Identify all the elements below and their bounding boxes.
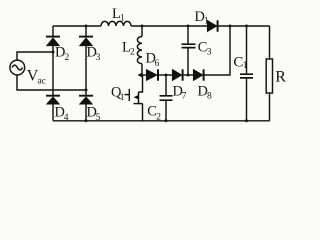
diode D6 bbox=[146, 69, 157, 80]
svg-text:3: 3 bbox=[207, 48, 212, 58]
junction node at D3 leg top rail bbox=[85, 25, 88, 28]
svg-text:1: 1 bbox=[120, 93, 125, 103]
source Vac sine bbox=[12, 65, 23, 70]
capacitor C3 bottom lead bbox=[187, 48, 189, 75]
wire top rail left (bridge top to L1) bbox=[53, 25, 101, 27]
svg-text:6: 6 bbox=[155, 59, 160, 69]
wire D8 cathode return to top rail bbox=[205, 26, 231, 75]
junction node at C1 bottom bbox=[245, 119, 248, 122]
wire Vac top lead bbox=[17, 52, 53, 60]
wire top rail right (L1 to R corner) bbox=[131, 25, 270, 27]
junction node at D8 return bbox=[229, 25, 232, 28]
junction node at Vac bottom / D5 leg bbox=[85, 89, 88, 92]
capacitor C3 plates bbox=[182, 44, 196, 47]
capacitor C2 bottom lead bbox=[165, 101, 167, 121]
wire L2 top lead bbox=[141, 26, 143, 37]
svg-text:4: 4 bbox=[64, 113, 69, 123]
transistor Q1 channel bar bbox=[138, 92, 140, 104]
svg-text:1: 1 bbox=[204, 17, 209, 27]
wire R top lead bbox=[269, 26, 271, 59]
wire Q1 drain bbox=[139, 75, 143, 92]
junction node at C2 bottom bbox=[165, 119, 168, 122]
diode D7 bbox=[172, 69, 182, 80]
resistor R body bbox=[266, 59, 272, 93]
diode D3 bbox=[79, 36, 93, 38]
diode D4 bbox=[46, 95, 60, 97]
junction node at D5 leg bottom rail bbox=[85, 119, 88, 122]
diode D5 bbox=[79, 95, 93, 97]
wire left bridge column bbox=[52, 26, 54, 121]
junction node at C2 top bbox=[165, 74, 168, 77]
capacitor C1 plates bbox=[240, 74, 253, 78]
svg-text:ac: ac bbox=[38, 77, 46, 87]
svg-text:2: 2 bbox=[156, 112, 161, 122]
svg-text:3: 3 bbox=[96, 53, 101, 63]
junction node at L2 branch bbox=[141, 25, 144, 28]
wire right bridge column bbox=[85, 26, 87, 121]
transistor Q1 gate bar bbox=[128, 89, 130, 101]
svg-text:1: 1 bbox=[120, 14, 125, 24]
wire D7 cathode to C3 node bbox=[183, 74, 194, 76]
diode D1 bbox=[207, 20, 217, 31]
wire L2 bottom lead to node bbox=[141, 64, 143, 75]
capacitor C1 bottom lead bbox=[246, 79, 248, 121]
transistor Q1 source line bbox=[134, 103, 143, 105]
svg-text:R: R bbox=[275, 68, 286, 85]
transistor Q1 body arrow line bbox=[136, 96, 139, 98]
wire Q1 gate lead bbox=[125, 94, 130, 96]
transistor Q1 body arrowhead bbox=[134, 95, 139, 100]
svg-text:7: 7 bbox=[182, 91, 187, 101]
capacitor C2 plates bbox=[160, 96, 173, 100]
arrow at L2/Q1 node bbox=[138, 73, 143, 78]
wire node to D6 anode bbox=[141, 74, 147, 76]
junction node at C3 bottom bbox=[187, 74, 190, 77]
diode D2 bbox=[46, 36, 60, 38]
wire Vac bottom lead bbox=[17, 75, 86, 90]
capacitor C1 top lead bbox=[246, 26, 248, 73]
junction node at C3 top bbox=[187, 25, 190, 28]
svg-text:2: 2 bbox=[65, 53, 70, 63]
svg-text:1: 1 bbox=[243, 61, 248, 71]
capacitor C3 top lead bbox=[187, 26, 189, 43]
svg-text:5: 5 bbox=[96, 113, 101, 123]
junction node at Vac top / D2 leg bbox=[52, 51, 55, 54]
svg-text:8: 8 bbox=[207, 92, 212, 102]
wire bottom rail bbox=[53, 120, 270, 122]
wire R bottom lead bbox=[269, 93, 271, 121]
junction node at C1 top bbox=[245, 25, 248, 28]
inductor L2 bbox=[137, 37, 142, 64]
capacitor C2 top lead bbox=[165, 75, 167, 95]
wire Q1 source lead bbox=[142, 104, 144, 121]
inductor L1 bbox=[101, 21, 131, 26]
svg-text:2: 2 bbox=[130, 47, 135, 57]
diode D8 bbox=[193, 69, 203, 80]
source Vac circle bbox=[10, 60, 25, 75]
wire D6 cathode to C2 node bbox=[159, 74, 173, 76]
